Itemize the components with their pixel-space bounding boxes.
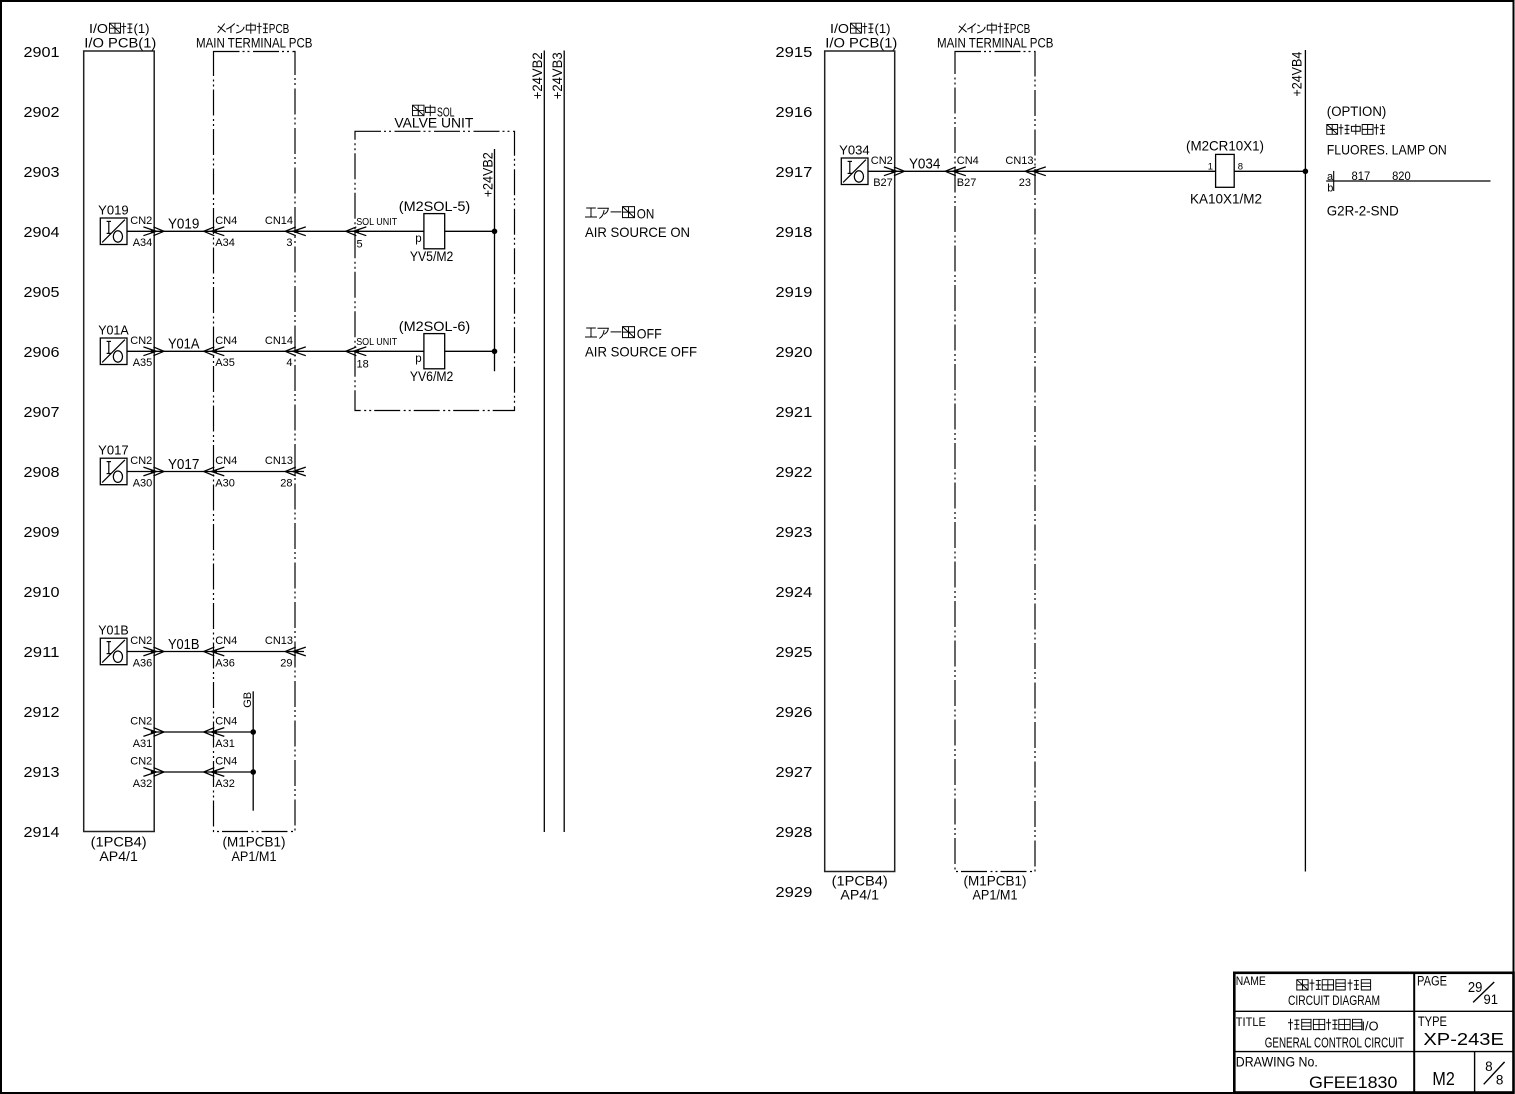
svg-text:A34: A34 [215, 237, 235, 249]
svg-text:(M1PCB1): (M1PCB1) [223, 834, 286, 849]
svg-text:SOL UNIT: SOL UNIT [356, 217, 397, 228]
svg-text:2914: 2914 [24, 825, 60, 841]
svg-text:NAME: NAME [1236, 976, 1266, 988]
svg-text:Y01B: Y01B [98, 624, 129, 638]
svg-text:KA10X1/M2: KA10X1/M2 [1190, 190, 1262, 206]
svg-text:820: 820 [1392, 171, 1411, 183]
svg-text:2918: 2918 [775, 225, 812, 241]
svg-text:2925: 2925 [775, 645, 812, 661]
svg-text:CN14: CN14 [265, 215, 293, 227]
svg-text:2912: 2912 [24, 705, 60, 721]
svg-text:Y01A: Y01A [168, 337, 200, 353]
svg-text:2906: 2906 [24, 345, 60, 361]
svg-text:CN2: CN2 [130, 215, 152, 227]
svg-text:CN4: CN4 [215, 635, 237, 647]
svg-text:(1PCB4): (1PCB4) [91, 834, 147, 849]
svg-text:GB: GB [242, 692, 254, 708]
svg-text:AP4/1: AP4/1 [840, 887, 879, 902]
svg-text:+24VB4: +24VB4 [1290, 51, 1305, 96]
svg-text:29: 29 [1468, 980, 1483, 996]
svg-text:(M2SOL-5): (M2SOL-5) [399, 198, 471, 214]
svg-text:4: 4 [286, 357, 292, 369]
svg-text:I/O PCB(1): I/O PCB(1) [825, 36, 897, 51]
svg-text:CN14: CN14 [265, 335, 293, 347]
svg-text:Y017: Y017 [168, 457, 200, 473]
svg-text:TITLE: TITLE [1236, 1017, 1266, 1029]
svg-text:Y01B: Y01B [168, 637, 200, 653]
svg-text:2908: 2908 [24, 465, 60, 481]
svg-text:18: 18 [357, 358, 369, 370]
svg-text:Y034: Y034 [839, 144, 870, 158]
svg-text:AIR SOURCE ON: AIR SOURCE ON [585, 224, 690, 240]
svg-text:PAGE: PAGE [1417, 973, 1447, 988]
svg-text:3: 3 [286, 237, 292, 249]
svg-text:I/O PCB(1): I/O PCB(1) [84, 36, 156, 51]
svg-text:CN13: CN13 [1005, 155, 1033, 167]
svg-text:2911: 2911 [24, 645, 60, 661]
svg-text:I/O: I/O [830, 21, 849, 36]
svg-text:91: 91 [1484, 992, 1499, 1007]
svg-text:A35: A35 [215, 357, 235, 369]
svg-text:2905: 2905 [24, 285, 60, 301]
svg-text:CN4: CN4 [215, 716, 237, 728]
svg-text:Y01A: Y01A [98, 324, 129, 338]
svg-text:1: 1 [1208, 161, 1213, 172]
svg-text:G2R-2-SND: G2R-2-SND [1327, 203, 1399, 219]
svg-text:CN4: CN4 [957, 155, 979, 167]
svg-text:GENERAL CONTROL CIRCUIT: GENERAL CONTROL CIRCUIT [1265, 1035, 1404, 1052]
svg-text:CN2: CN2 [130, 335, 152, 347]
svg-text:Y019: Y019 [168, 217, 200, 233]
svg-text:A35: A35 [133, 357, 153, 369]
svg-text:b: b [1327, 183, 1333, 195]
svg-text:B27: B27 [957, 177, 977, 189]
svg-text:Y019: Y019 [98, 204, 129, 218]
svg-text:I/O: I/O [1362, 1019, 1379, 1034]
svg-text:2921: 2921 [775, 405, 812, 421]
svg-text:(1): (1) [134, 21, 150, 36]
svg-text:A30: A30 [133, 477, 153, 489]
svg-text:MAIN TERMINAL PCB: MAIN TERMINAL PCB [937, 36, 1054, 51]
svg-text:p: p [415, 233, 421, 245]
svg-text:2913: 2913 [24, 765, 60, 781]
svg-text:2924: 2924 [775, 585, 812, 601]
svg-text:2909: 2909 [24, 525, 60, 541]
svg-text:2919: 2919 [775, 285, 812, 301]
svg-text:YV5/M2: YV5/M2 [410, 248, 454, 264]
svg-text:2929: 2929 [775, 885, 812, 901]
svg-text:2903: 2903 [24, 165, 60, 181]
svg-text:2920: 2920 [775, 345, 812, 361]
svg-text:CN13: CN13 [265, 635, 293, 647]
svg-text:CN13: CN13 [265, 455, 293, 467]
svg-text:817: 817 [1352, 171, 1371, 183]
svg-text:FLUORES. LAMP ON: FLUORES. LAMP ON [1327, 143, 1447, 158]
svg-text:CIRCUIT DIAGRAM: CIRCUIT DIAGRAM [1288, 993, 1380, 1008]
svg-text:B27: B27 [873, 177, 893, 189]
svg-text:A32: A32 [133, 778, 153, 790]
svg-text:(M2SOL-6): (M2SOL-6) [399, 318, 471, 334]
svg-text:A34: A34 [133, 237, 153, 249]
svg-text:GFEE1830: GFEE1830 [1309, 1074, 1397, 1092]
svg-text:2901: 2901 [24, 45, 60, 61]
svg-text:2910: 2910 [24, 585, 60, 601]
svg-text:PCB: PCB [269, 21, 290, 36]
svg-text:2927: 2927 [775, 765, 812, 781]
svg-text:AP4/1: AP4/1 [99, 849, 138, 864]
svg-text:SOL UNIT: SOL UNIT [356, 337, 397, 348]
svg-text:AP1/M1: AP1/M1 [232, 849, 277, 864]
svg-text:CN2: CN2 [871, 155, 893, 167]
svg-text:CN4: CN4 [215, 215, 237, 227]
svg-text:PCB: PCB [1010, 21, 1031, 36]
svg-text:2904: 2904 [24, 225, 60, 241]
svg-text:CN2: CN2 [130, 635, 152, 647]
svg-text:MAIN TERMINAL PCB: MAIN TERMINAL PCB [196, 36, 313, 51]
svg-text:2928: 2928 [775, 825, 812, 841]
svg-text:+24VB3: +24VB3 [550, 52, 565, 99]
svg-text:A30: A30 [215, 477, 235, 489]
svg-text:VALVE UNIT: VALVE UNIT [394, 115, 473, 130]
svg-text:(1PCB4): (1PCB4) [832, 874, 888, 889]
svg-text:CN2: CN2 [130, 716, 152, 728]
svg-text:(1): (1) [875, 21, 891, 36]
svg-text:+24VB2: +24VB2 [480, 152, 495, 197]
svg-text:AP1/M1: AP1/M1 [973, 887, 1018, 902]
svg-text:TYPE: TYPE [1418, 1014, 1447, 1029]
svg-text:CN4: CN4 [215, 335, 237, 347]
svg-text:A31: A31 [133, 738, 153, 750]
svg-text:29: 29 [280, 657, 292, 669]
svg-text:5: 5 [357, 238, 363, 250]
svg-text:OFF: OFF [637, 325, 662, 341]
svg-text:CN2: CN2 [130, 455, 152, 467]
svg-text:CN2: CN2 [130, 756, 152, 768]
svg-text:Y017: Y017 [98, 444, 129, 458]
svg-text:A32: A32 [215, 778, 235, 790]
svg-text:XP-243E: XP-243E [1423, 1029, 1504, 1049]
svg-text:2907: 2907 [24, 405, 60, 421]
svg-text:I/O: I/O [89, 21, 108, 36]
svg-text:DRAWING No.: DRAWING No. [1236, 1055, 1318, 1070]
svg-text:(M2CR10X1): (M2CR10X1) [1186, 138, 1264, 154]
svg-text:A36: A36 [215, 657, 235, 669]
svg-text:8: 8 [1485, 1059, 1493, 1074]
svg-text:28: 28 [280, 477, 292, 489]
svg-text:CN4: CN4 [215, 455, 237, 467]
svg-text:2922: 2922 [775, 465, 812, 481]
svg-text:2915: 2915 [775, 45, 812, 61]
svg-text:Y034: Y034 [909, 157, 941, 173]
svg-text:2916: 2916 [775, 105, 812, 121]
svg-text:8: 8 [1238, 161, 1243, 172]
svg-text:(M1PCB1): (M1PCB1) [964, 874, 1027, 889]
svg-text:p: p [415, 353, 421, 365]
svg-text:A31: A31 [215, 738, 235, 750]
svg-text:M2: M2 [1432, 1068, 1454, 1089]
svg-text:CN4: CN4 [215, 756, 237, 768]
svg-text:A36: A36 [133, 657, 153, 669]
svg-text:23: 23 [1019, 177, 1031, 189]
svg-text:+24VB2: +24VB2 [530, 52, 545, 99]
svg-text:ON: ON [637, 205, 655, 221]
svg-text:(OPTION): (OPTION) [1327, 104, 1387, 119]
svg-text:2902: 2902 [24, 105, 60, 121]
svg-text:2923: 2923 [775, 525, 812, 541]
svg-text:8: 8 [1496, 1073, 1504, 1088]
svg-text:2917: 2917 [775, 165, 812, 181]
svg-text:YV6/M2: YV6/M2 [410, 368, 454, 384]
svg-text:2926: 2926 [775, 705, 812, 721]
svg-text:AIR SOURCE OFF: AIR SOURCE OFF [585, 344, 697, 360]
